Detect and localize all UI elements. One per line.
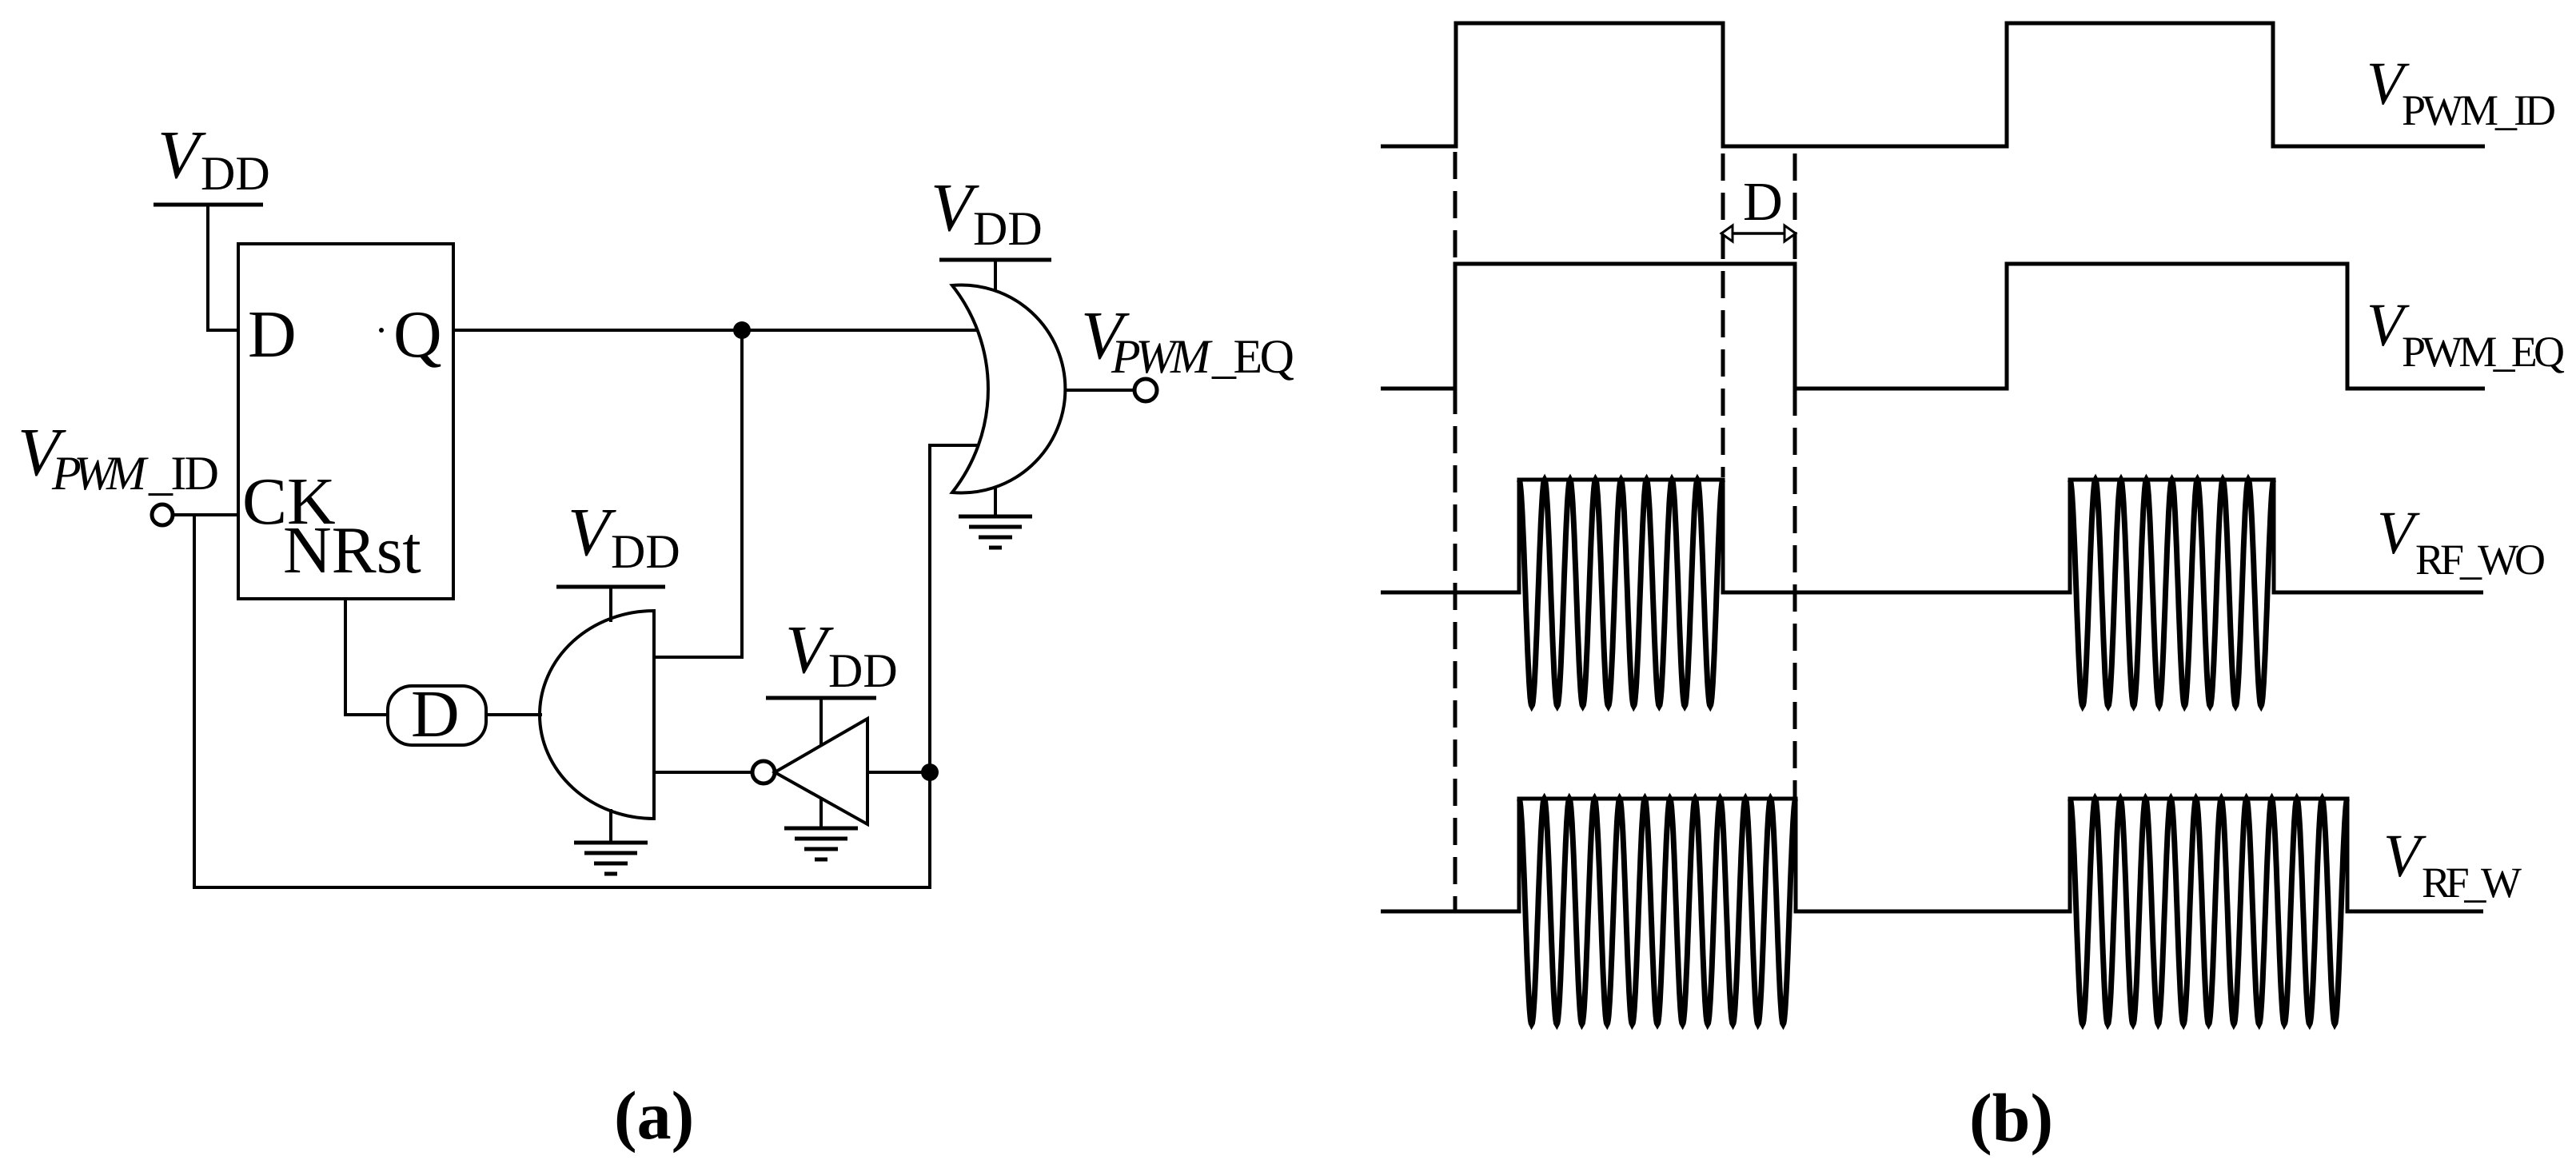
svg-text:Q: Q	[393, 297, 442, 372]
svg-text:V: V	[2383, 823, 2426, 890]
svg-text:D: D	[248, 297, 297, 372]
wire VDD1 stub	[206, 205, 209, 330]
wire OR output	[1066, 389, 1134, 392]
svg-text:RF_W: RF_W	[2422, 859, 2522, 907]
svg-text:D: D	[411, 677, 460, 751]
svg-text:_EQ: _EQ	[1211, 330, 1294, 383]
wire terminal to CK	[173, 513, 238, 516]
label VRF_WO	[2377, 500, 2546, 584]
svg-text:DD: DD	[201, 147, 270, 200]
ground AND	[574, 809, 648, 874]
AND gate U2	[540, 611, 654, 819]
wire VDD4 stub	[994, 260, 997, 291]
svg-text:PWM: PWM	[51, 447, 149, 500]
waveform VPWM_EQ	[1381, 264, 2485, 389]
junction node A	[733, 321, 751, 339]
ground OR	[959, 488, 1032, 548]
input terminal VPWM_ID	[152, 504, 173, 525]
label VRF_W	[2383, 823, 2522, 907]
wire AND lower port to inverter	[654, 771, 752, 774]
svg-text:PWM_EQ: PWM_EQ	[2402, 328, 2565, 376]
wire VDD2 stub	[609, 587, 612, 622]
svg-text:PWM_ID: PWM_ID	[2402, 86, 2556, 134]
svg-text:RF_WO: RF_WO	[2415, 536, 2546, 584]
wire NRst to delay D1	[345, 599, 388, 715]
wire VDD1 to D pin	[208, 203, 238, 330]
waveform VRF_WO burst 1	[1519, 480, 1723, 706]
wire node A to AND upper port	[654, 330, 742, 657]
waveform VRF_WO baseline	[1381, 480, 2483, 592]
wire inverter output	[867, 771, 930, 774]
svg-text:DD: DD	[973, 202, 1043, 255]
svg-text:_ID: _ID	[148, 447, 219, 500]
dashed line t3	[1793, 153, 1797, 797]
wire feedback rail	[194, 515, 930, 887]
svg-text:NRst: NRst	[283, 513, 421, 588]
inverter U3	[752, 719, 867, 824]
ground INV	[784, 799, 858, 859]
waveform VRF_W burst 2	[2070, 799, 2347, 1024]
power VDD3	[766, 611, 898, 698]
label VPWM_EQ	[2367, 292, 2565, 376]
svg-text:(a): (a)	[614, 1077, 694, 1154]
dashed line t1	[1453, 152, 1457, 911]
dashed line t2	[1721, 153, 1725, 477]
svg-text:V: V	[785, 611, 834, 688]
waveform VPWM_ID	[1381, 23, 2485, 146]
OR gate U4	[952, 285, 1065, 493]
svg-text:DD: DD	[828, 644, 898, 697]
svg-text:D: D	[1743, 171, 1783, 232]
node label VPWM_ID	[18, 413, 219, 500]
svg-text:V: V	[158, 116, 206, 193]
power VDD1	[154, 116, 270, 205]
wire node B to OR lower port	[930, 445, 979, 772]
flip-flop U1	[238, 244, 453, 599]
waveform VRF_W baseline	[1381, 799, 2483, 911]
wire VDD3 stub	[819, 698, 823, 745]
label VPWM_ID	[2367, 50, 2556, 134]
junction node B	[921, 763, 939, 781]
delay element D1	[388, 677, 486, 751]
dimension arrow D	[1721, 225, 1796, 241]
power VDD2	[556, 493, 680, 587]
pin dot Q	[379, 328, 384, 333]
node label VPWM_EQ	[1081, 297, 1294, 383]
svg-text:DD: DD	[611, 525, 680, 578]
svg-text:PWM: PWM	[1111, 330, 1213, 383]
wire delay D1 to AND gate	[486, 713, 542, 716]
svg-text:(b): (b)	[1969, 1079, 2053, 1156]
waveform VRF_W burst 1	[1519, 799, 1796, 1024]
waveform VRF_WO burst 2	[2070, 480, 2274, 706]
svg-text:V: V	[2377, 500, 2420, 567]
svg-text:V: V	[568, 493, 616, 570]
svg-text:V: V	[931, 169, 979, 245]
power VDD4	[931, 169, 1051, 260]
output terminal VPWM_EQ	[1134, 379, 1157, 401]
wire Q output	[453, 329, 978, 332]
